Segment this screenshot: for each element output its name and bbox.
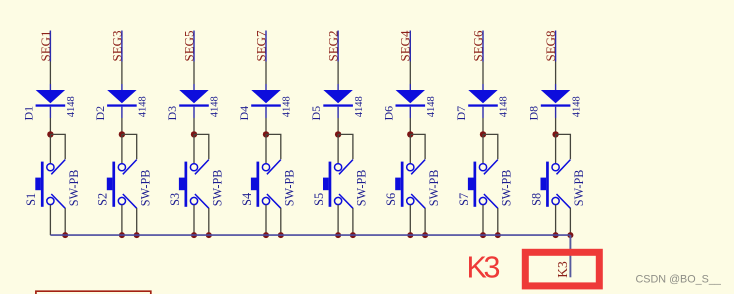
svg-text:D2: D2 [93, 106, 107, 121]
wire net SEG7 to diode D4 anode [265, 31, 267, 91]
svg-text:S2: S2 [96, 193, 110, 206]
switch S6 (SW-PB) top contact circle [407, 164, 414, 171]
switch S2 top lever [123, 160, 137, 175]
switch S6 push cap [395, 178, 401, 191]
wire node to S4 top contact [265, 134, 267, 163]
diode D5 (1N4148) [323, 90, 353, 107]
value SW-PB (S1) [67, 170, 81, 207]
junction S2 lever / bus [134, 232, 140, 238]
junction S4 lever / bus [278, 232, 284, 238]
switch S1 (SW-PB) top contact circle [47, 164, 54, 171]
net label SEG1 [38, 30, 53, 61]
wire node to S8 pin 1 (right branch) [556, 134, 571, 159]
svg-text:D5: D5 [309, 106, 323, 121]
switch S7 (SW-PB) top contact circle [479, 164, 486, 171]
junction S3 lever / bus [206, 232, 212, 238]
wire net SEG8 to diode D8 anode [555, 31, 557, 91]
wire net SEG6 to diode D7 anode [482, 31, 484, 91]
svg-text:K3: K3 [467, 251, 501, 285]
value 4148 (D8) [571, 96, 582, 117]
switch S8 top lever [557, 160, 571, 175]
junction node under D8 [552, 131, 558, 137]
switch S3 bottom contact circle [190, 197, 197, 204]
svg-text:SW-PB: SW-PB [500, 170, 514, 207]
wire S2 bottom contact to bus [121, 205, 123, 235]
junction S5 lever / bus [350, 232, 356, 238]
switch S1 actuator bar [41, 162, 44, 207]
net label SEG8 [543, 30, 558, 61]
switch S5 bottom lever [339, 194, 353, 208]
watermark CSDN @BO_S__ [636, 274, 722, 286]
value 4148 (D6) [426, 96, 437, 117]
annotation red highlight box around K3 [525, 252, 599, 286]
designator S3 [168, 193, 182, 206]
value SW-PB (S7) [500, 170, 514, 207]
wire bus net K3 (horizontal) [50, 234, 570, 236]
switch S7 bottom lever [484, 194, 498, 208]
wire node to S7 top contact [482, 134, 484, 163]
wire D4 cathode to node [265, 107, 267, 134]
net label SEG4 [398, 30, 413, 62]
wire node to S3 pin 1 (right branch) [194, 134, 209, 159]
diode D6 (1N4148) [396, 90, 426, 107]
svg-text:S6: S6 [384, 193, 398, 206]
svg-text:CSDN @BO_S__: CSDN @BO_S__ [636, 274, 722, 286]
wire node to S2 top contact [121, 134, 123, 163]
wire D2 cathode to node [121, 107, 123, 134]
svg-text:K3: K3 [555, 261, 570, 278]
wire node to S2 pin 1 (right branch) [122, 134, 137, 159]
designator D4 [237, 106, 251, 121]
svg-text:S8: S8 [529, 193, 543, 206]
diode D4 (1N4148) [251, 90, 281, 107]
net label SEG6 [470, 30, 485, 62]
switch S6 actuator bar [401, 162, 404, 207]
diode D1 (1N4148) [36, 90, 66, 107]
svg-text:D8: D8 [527, 106, 541, 121]
diode D2 (1N4148) [107, 90, 137, 107]
switch S5 push cap [323, 178, 329, 191]
wire net SEG4 to diode D6 anode [409, 31, 411, 91]
designator D5 [309, 106, 323, 121]
value 4148 (D1) [66, 96, 77, 117]
svg-text:D7: D7 [454, 106, 468, 121]
switch S8 bottom lever [557, 194, 571, 208]
net label K3 [555, 261, 570, 278]
designator S5 [312, 193, 326, 206]
switch S2 push cap [107, 178, 113, 191]
switch S2 bottom lever [123, 194, 137, 208]
wire net SEG3 to diode D2 anode [121, 31, 123, 91]
designator S7 [457, 193, 471, 206]
designator S1 [24, 193, 38, 206]
switch S4 top lever [267, 160, 281, 175]
wire node to S8 top contact [555, 134, 557, 163]
switch S3 actuator bar [185, 162, 188, 207]
wire S1 lever side to bus [64, 208, 66, 235]
svg-text:4148: 4148 [426, 96, 437, 117]
svg-text:S3: S3 [168, 193, 182, 206]
switch S1 bottom lever [51, 194, 65, 208]
designator D2 [93, 106, 107, 121]
value SW-PB (S6) [427, 170, 441, 207]
designator D7 [454, 106, 468, 121]
svg-text:SW-PB: SW-PB [211, 170, 225, 207]
svg-text:S1: S1 [24, 193, 38, 206]
wire D1 cathode to node [49, 107, 51, 134]
switch S4 actuator bar [257, 162, 260, 207]
wire S5 lever side to bus [352, 208, 354, 235]
designator D1 [21, 106, 35, 121]
svg-text:D1: D1 [21, 106, 35, 121]
svg-text:SW-PB: SW-PB [355, 170, 369, 207]
junction S2 contact / bus [119, 232, 125, 238]
junction S8 lever / bus [567, 232, 573, 238]
wire D8 cathode to node [555, 107, 557, 134]
switch S7 actuator bar [474, 162, 477, 207]
svg-text:SW-PB: SW-PB [427, 170, 441, 207]
switch S8 actuator bar [546, 162, 549, 207]
designator D8 [527, 106, 541, 121]
designator S4 [240, 193, 254, 206]
switch S4 bottom lever [267, 194, 281, 208]
svg-text:D4: D4 [237, 106, 251, 121]
wire S4 lever side to bus [280, 208, 282, 235]
svg-text:S5: S5 [312, 193, 326, 206]
wire node to S1 pin 1 (right branch) [50, 134, 65, 159]
value 4148 (D4) [282, 96, 293, 117]
wire node to S1 top contact [49, 134, 51, 163]
wire node to S6 pin 1 (right branch) [410, 134, 425, 159]
wire S1 bottom contact to bus [49, 205, 51, 235]
junction S8 contact / bus [553, 232, 559, 238]
wire S6 bottom contact to bus [409, 205, 411, 235]
wire net SEG5 to diode D3 anode [193, 31, 195, 91]
designator D3 [165, 106, 179, 121]
switch S3 top lever [195, 160, 209, 175]
junction node under D7 [480, 131, 486, 137]
wire net SEG2 to diode D5 anode [337, 31, 339, 91]
svg-text:S7: S7 [457, 193, 471, 206]
diode D7 (1N4148) [468, 90, 498, 107]
switch S7 push cap [468, 178, 474, 191]
svg-text:4148: 4148 [66, 96, 77, 117]
svg-text:S4: S4 [240, 193, 254, 206]
wire S3 bottom contact to bus [193, 205, 195, 235]
wire S7 lever side to bus [497, 208, 499, 235]
wire S7 bottom contact to bus [482, 205, 484, 235]
switch S1 push cap [35, 178, 41, 191]
value SW-PB (S2) [139, 170, 153, 207]
svg-text:4148: 4148 [210, 96, 221, 117]
designator S8 [529, 193, 543, 206]
diode D3 (1N4148) [179, 90, 209, 107]
wire node to S6 top contact [409, 134, 411, 163]
diode D8 (1N4148) [541, 90, 571, 107]
wire S3 lever side to bus [208, 208, 210, 235]
value 4148 (D3) [210, 96, 221, 117]
value 4148 (D5) [354, 96, 365, 117]
wire D7 cathode to node [482, 107, 484, 134]
designator S2 [96, 193, 110, 206]
switch S3 push cap [179, 178, 185, 191]
wire node to S3 top contact [193, 134, 195, 163]
annotation big K3 text [467, 251, 501, 285]
annotation partial red box (bottom left, cut off) [36, 291, 151, 294]
designator D6 [381, 106, 395, 121]
junction S4 contact / bus [263, 232, 269, 238]
wire S2 lever side to bus [136, 208, 138, 235]
junction S6 lever / bus [422, 232, 428, 238]
junction S3 contact / bus [191, 232, 197, 238]
value 4148 (D7) [499, 96, 510, 117]
svg-text:4148: 4148 [354, 96, 365, 117]
designator S6 [384, 193, 398, 206]
switch S1 top lever [51, 160, 65, 175]
switch S4 (SW-PB) top contact circle [262, 164, 269, 171]
value 4148 (D2) [138, 96, 149, 117]
wire node to S4 pin 1 (right branch) [266, 134, 281, 159]
switch S2 actuator bar [112, 162, 115, 207]
switch S5 actuator bar [329, 162, 332, 207]
switch S3 bottom lever [195, 194, 209, 208]
junction node under D2 [119, 131, 125, 137]
switch S4 bottom contact circle [262, 197, 269, 204]
wire S6 lever side to bus [424, 208, 426, 235]
switch S6 top lever [411, 160, 425, 175]
switch S6 bottom contact circle [407, 197, 414, 204]
value SW-PB (S4) [283, 170, 297, 207]
switch S8 bottom contact circle [552, 197, 559, 204]
wire node to S7 pin 1 (right branch) [483, 134, 498, 159]
net label SEG3 [109, 30, 124, 61]
wire D3 cathode to node [193, 107, 195, 134]
svg-text:SW-PB: SW-PB [572, 170, 586, 207]
junction S1 lever / bus [62, 232, 68, 238]
switch S5 (SW-PB) top contact circle [335, 164, 342, 171]
junction S6 contact / bus [407, 232, 413, 238]
junction node under D4 [263, 131, 269, 137]
wire S4 bottom contact to bus [265, 205, 267, 235]
junction node under D3 [191, 131, 197, 137]
switch S5 top lever [339, 160, 353, 175]
wire S5 bottom contact to bus [337, 205, 339, 235]
wire bus corner down to K3 label [569, 235, 571, 277]
net label SEG7 [253, 30, 268, 62]
switch S4 push cap [251, 178, 257, 191]
switch S2 bottom contact circle [118, 197, 125, 204]
wire net SEG1 to diode D1 anode [49, 31, 51, 91]
svg-text:SW-PB: SW-PB [139, 170, 153, 207]
net label SEG5 [181, 30, 196, 61]
junction S7 lever / bus [495, 232, 501, 238]
junction S5 contact / bus [335, 232, 341, 238]
svg-text:D3: D3 [165, 106, 179, 121]
wire D6 cathode to node [409, 107, 411, 134]
svg-text:4148: 4148 [499, 96, 510, 117]
switch S5 bottom contact circle [335, 197, 342, 204]
wire node to S5 top contact [337, 134, 339, 163]
switch S8 (SW-PB) top contact circle [552, 164, 559, 171]
value SW-PB (S5) [355, 170, 369, 207]
value SW-PB (S8) [572, 170, 586, 207]
switch S8 push cap [541, 178, 547, 191]
svg-text:4148: 4148 [571, 96, 582, 117]
switch S7 top lever [484, 160, 498, 175]
junction node under D1 [47, 131, 53, 137]
wire S8 bottom contact to bus [555, 205, 557, 235]
svg-text:D6: D6 [381, 106, 395, 121]
svg-text:4148: 4148 [138, 96, 149, 117]
switch S3 (SW-PB) top contact circle [190, 164, 197, 171]
junction node under D6 [407, 131, 413, 137]
wire node to S5 pin 1 (right branch) [338, 134, 353, 159]
wire D5 cathode to node [337, 107, 339, 134]
switch S2 (SW-PB) top contact circle [118, 164, 125, 171]
svg-text:4148: 4148 [282, 96, 293, 117]
switch S1 bottom contact circle [47, 197, 54, 204]
value SW-PB (S3) [211, 170, 225, 207]
switch S7 bottom contact circle [479, 197, 486, 204]
switch S6 bottom lever [411, 194, 425, 208]
svg-text:SW-PB: SW-PB [67, 170, 81, 207]
wire S8 lever side to bus [569, 208, 571, 235]
svg-text:SW-PB: SW-PB [283, 170, 297, 207]
junction S7 contact / bus [480, 232, 486, 238]
junction node under D5 [335, 131, 341, 137]
net label SEG2 [326, 30, 341, 61]
